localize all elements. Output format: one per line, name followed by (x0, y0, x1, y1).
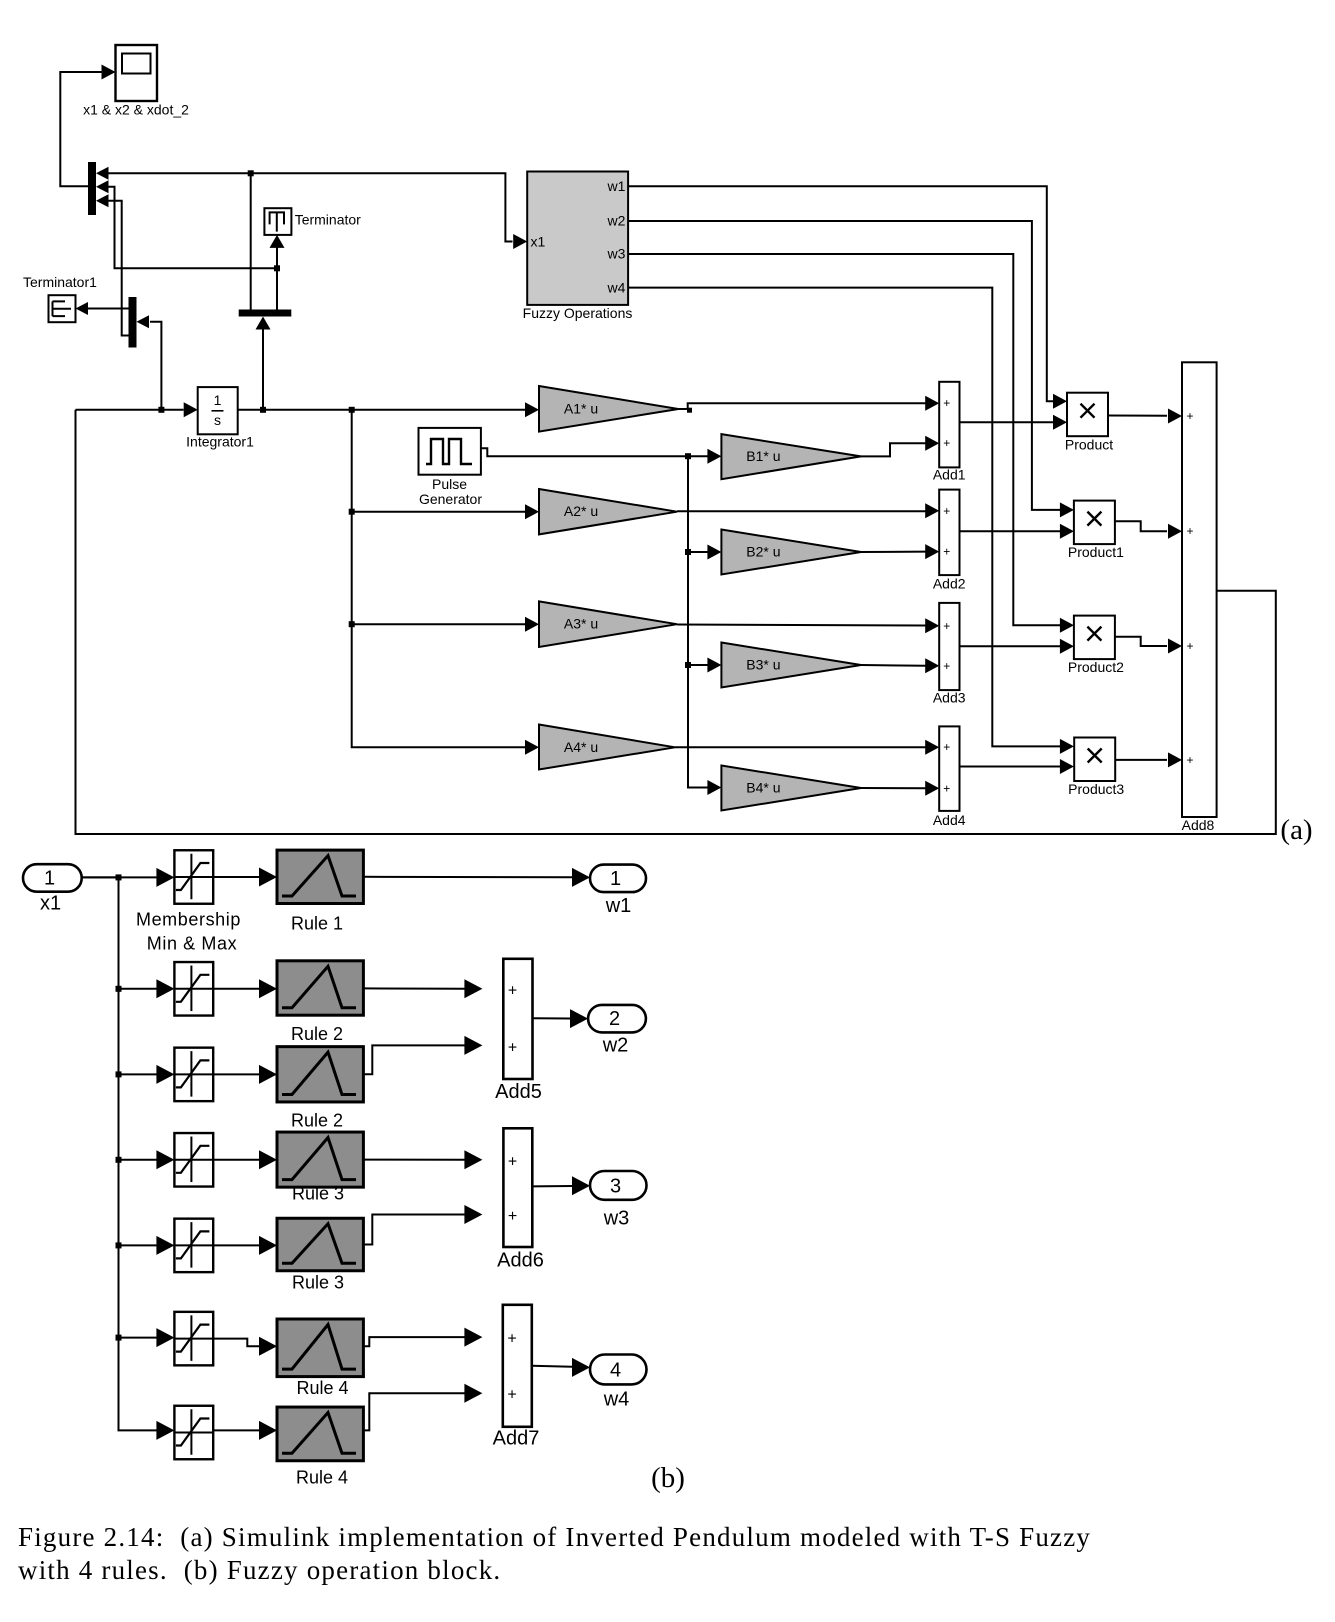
sum block Add3 (933, 603, 966, 705)
wire Integrator1 output up to Demux input (260, 327, 266, 413)
wire Add1 output to Product input 2 (960, 415, 1068, 430)
wire demux out2 to mux input 2 (109, 187, 275, 268)
wire gain A2 output to Add2 input 1 (677, 503, 939, 518)
svg-text:Add6: Add6 (497, 1250, 544, 1272)
label Rule 2 (second) (291, 1111, 343, 1131)
wire Product3 output to Add8 input 4 (1115, 752, 1182, 767)
svg-text:Add2: Add2 (933, 576, 966, 592)
wire B-trunk vertical (688, 456, 721, 795)
svg-text:with 4 rules. (b) Fuzzy opera: with 4 rules. (b) Fuzzy operation block. (18, 1555, 501, 1585)
label Rule 3 (first) (292, 1184, 344, 1204)
svg-text:w4: w4 (606, 279, 625, 295)
wire Pulse Generator output to gain B1 (481, 448, 722, 464)
gain A1 (539, 386, 678, 432)
product block Product (1065, 393, 1113, 453)
svg-text:Fuzzy Operations: Fuzzy Operations (523, 305, 633, 321)
svg-text:Rule 2: Rule 2 (291, 1111, 343, 1131)
svg-text:w4: w4 (603, 1389, 630, 1411)
wire w2 to Product1 input 1 (628, 221, 1074, 517)
svg-text:Add4: Add4 (933, 812, 966, 828)
label Rule 4 (second) (296, 1468, 348, 1488)
svg-text:+: + (1186, 639, 1193, 653)
wire trunk to Membership6 (row6) (116, 1328, 175, 1347)
wire Add3 output to Product2 input 2 (960, 639, 1074, 654)
svg-text:w3: w3 (606, 246, 625, 262)
wire Add4 output to Product3 input 2 (960, 759, 1074, 774)
svg-text:Terminator1: Terminator1 (23, 274, 97, 290)
wire gain B3 output to Add3 input 2 (861, 658, 939, 673)
output port 2 (w2) (588, 1005, 646, 1057)
wire gain B2 output to Add2 input 2 (861, 544, 939, 559)
sum block Add4 (933, 726, 966, 828)
label Rule 4 (first) (296, 1378, 348, 1398)
terminator Terminator (264, 208, 361, 235)
wire trunk to Membership2 (row2) (116, 979, 175, 998)
svg-text:+: + (507, 1387, 516, 1404)
membership-function block Rule 4 (instance 6) (277, 1319, 363, 1377)
saturation block Membership6 (174, 1312, 213, 1366)
svg-text:+: + (508, 982, 517, 999)
wire Membership5 to Rule 3 second (213, 1236, 277, 1255)
membership-function block Rule 3 (instance 5) (277, 1218, 363, 1271)
svg-text:Terminator: Terminator (295, 212, 361, 228)
svg-text:+: + (1186, 753, 1193, 767)
svg-text:+: + (943, 659, 950, 673)
gain B1 (721, 434, 861, 479)
sum block Add5 (495, 959, 542, 1103)
label Membership Min & Max (136, 910, 241, 954)
output port 4 (w4) (590, 1355, 647, 1411)
svg-text:Rule 4: Rule 4 (296, 1468, 348, 1488)
wire w3 to Product2 input 1 (628, 254, 1074, 633)
svg-text:Rule 4: Rule 4 (296, 1378, 348, 1398)
svg-text:A4* u: A4* u (564, 739, 598, 755)
sum block Add8 (1182, 362, 1217, 833)
svg-text:Add3: Add3 (933, 689, 966, 705)
svg-text:Generator: Generator (419, 491, 482, 507)
wire trunk to Membership5 (row5) (116, 1236, 175, 1255)
svg-text:B1* u: B1* u (746, 448, 780, 464)
svg-text:A3* u: A3* u (564, 616, 598, 632)
sum block Add2 (933, 490, 966, 592)
wire Product output to Add8 input 1 (1108, 409, 1182, 424)
svg-text:+: + (943, 740, 950, 754)
wire gain B1 output to Add1 input 2 (861, 436, 939, 457)
svg-text:+: + (943, 396, 950, 410)
svg-text:A2* u: A2* u (564, 503, 598, 519)
product block Product2 (1068, 616, 1124, 676)
wire feedback into Integrator1 input (76, 402, 198, 417)
svg-text:+: + (507, 1331, 516, 1348)
svg-text:Add7: Add7 (493, 1428, 540, 1450)
sum block Add6 (497, 1128, 544, 1271)
svg-text:Product2: Product2 (1068, 659, 1124, 675)
wire Membership7 to Rule 4 second (213, 1421, 277, 1440)
svg-text:+: + (508, 1153, 517, 1170)
label (b) (651, 1462, 685, 1494)
svg-text:(b): (b) (651, 1462, 685, 1494)
svg-text:w2: w2 (606, 213, 625, 229)
saturation block Membership7 (174, 1406, 213, 1460)
svg-text:+: + (1186, 524, 1193, 538)
wire Membership4 to Rule 3 (213, 1150, 277, 1169)
product block Product1 (1068, 501, 1124, 561)
wire Product2 output to Add8 input 3 (1115, 637, 1182, 654)
gain A3 (539, 601, 677, 647)
gain A2 (539, 489, 677, 534)
svg-text:+: + (943, 619, 950, 633)
svg-text:B2* u: B2* u (746, 544, 780, 560)
svg-text:Product3: Product3 (1068, 781, 1124, 797)
wire feedback branch to Demux1 input (150, 322, 164, 413)
wire Membership3 to Rule 2 second (213, 1065, 277, 1084)
wire A-trunk to gain A2 (349, 504, 539, 519)
svg-text:Product1: Product1 (1068, 544, 1124, 560)
wire gain A3 output to Add3 input 1 (677, 618, 939, 633)
wire w1 to Product input 1 (628, 186, 1067, 408)
wire Rule 3 second to Add6 input 2 (363, 1205, 482, 1245)
svg-text:x1 & x2 & xdot_2: x1 & x2 & xdot_2 (83, 102, 189, 118)
wire Add8 output feedback loop (76, 410, 1276, 834)
svg-text:+: + (943, 781, 950, 795)
svg-text:w2: w2 (602, 1035, 629, 1057)
svg-text:B4* u: B4* u (746, 780, 780, 796)
wire Rule 1 to output port w1 (363, 868, 590, 887)
svg-text:1: 1 (214, 392, 222, 408)
caption Figure 2.14 (18, 1522, 1091, 1585)
saturation block Membership3 (174, 1048, 213, 1102)
wire demux1 out2 to mux input 3 (109, 201, 129, 336)
label (a) (1280, 814, 1312, 846)
svg-text:+: + (508, 1039, 517, 1056)
wire gain A1 output to Add1 input 1 (678, 396, 939, 413)
wire Add5 output to port w2 (533, 1009, 589, 1028)
svg-text:+: + (1186, 409, 1193, 423)
svg-text:Rule 3: Rule 3 (292, 1184, 344, 1204)
wire gain A4 output to Add4 input 1 (675, 740, 939, 755)
wire Membership6 to Rule 4 (213, 1337, 277, 1356)
wire Demux out1 up to x1 line (250, 173, 252, 309)
svg-text:w3: w3 (603, 1208, 630, 1230)
gain B3 (721, 643, 861, 688)
wire Rule 4 second to Add7 input 2 (363, 1384, 482, 1431)
wire Integrator1 output to gain A1 (238, 402, 539, 417)
svg-text:Figure 2.14: (a) Simulink imp: Figure 2.14: (a) Simulink implementation… (18, 1522, 1091, 1552)
svg-text:4: 4 (610, 1360, 621, 1382)
svg-text:Integrator1: Integrator1 (186, 434, 254, 450)
wire mux output to scope (60, 65, 115, 187)
terminator Terminator1 (23, 274, 97, 322)
membership-function block Rule 2 (instance 2) (277, 961, 363, 1015)
wire Rule 2 to Add5 input 1 (363, 979, 482, 998)
svg-text:Rule 3: Rule 3 (292, 1273, 344, 1293)
wire Rule 3 to Add6 input 1 (363, 1150, 482, 1169)
wire trunk to Membership4 (row4) (116, 1150, 175, 1169)
membership-function block Rule 3 (instance 4) (277, 1132, 363, 1187)
svg-text:B3* u: B3* u (746, 657, 780, 673)
svg-text:Add1: Add1 (933, 466, 966, 482)
svg-text:+: + (943, 504, 950, 518)
saturation block Membership4 (174, 1133, 213, 1187)
sum block Add7 (493, 1305, 540, 1450)
membership-function block Rule 4 (instance 7) (277, 1407, 363, 1461)
svg-text:1: 1 (44, 868, 55, 890)
input port 1 (x1) (23, 864, 82, 914)
wire Add7 output to port w4 (532, 1358, 590, 1377)
svg-text:Add5: Add5 (495, 1081, 542, 1103)
mux Mux (flipped, 3 inputs) (88, 162, 109, 215)
membership-function block Rule 2 (instance 3) (277, 1047, 363, 1102)
wire Membership to Rule 1 (213, 868, 277, 887)
wire trunk to Membership3 (row3) (116, 1065, 175, 1084)
wire B-trunk to gain B2 (685, 545, 721, 560)
svg-text:Membership: Membership (136, 910, 241, 930)
membership-function block Rule 1 (instance 1) (277, 850, 363, 903)
wire x1 trunk vertical (82, 874, 175, 1440)
saturation block Membership (174, 850, 213, 904)
product block Product3 (1068, 738, 1124, 798)
label Rule 2 (first) (291, 1024, 343, 1044)
demux Demux1 (flipped, lower-left) (129, 297, 150, 348)
wire B-trunk to gain B3 (685, 658, 721, 673)
svg-text:+: + (508, 1208, 517, 1225)
wire demux1 out1 to Terminator1 (76, 302, 129, 315)
svg-text:w1: w1 (606, 178, 625, 194)
svg-text:Product: Product (1065, 437, 1113, 453)
integrator Integrator1 (186, 387, 254, 449)
saturation block Membership2 (174, 962, 213, 1016)
wire trunk to Membership (row1) (82, 868, 175, 887)
output port 1 (w1) (590, 865, 646, 917)
svg-text:+: + (943, 545, 950, 559)
demux Demux (rotated, above Integrator1) (239, 310, 292, 330)
label Rule 1 (291, 914, 343, 934)
pulse generator Pulse Generator (419, 428, 483, 507)
wire A-trunk vertical (352, 410, 539, 755)
wire x1 signal to mux input 1 and Fuzzy Operations x1 (109, 170, 528, 249)
wire A-trunk to gain A3 (349, 617, 539, 632)
svg-text:Pulse: Pulse (432, 476, 467, 492)
svg-text:+: + (943, 436, 950, 450)
svg-text:(a): (a) (1280, 814, 1312, 846)
wire gain B4 output to Add4 input 2 (861, 781, 939, 796)
svg-text:x1: x1 (40, 893, 61, 915)
output port 3 (w3) (590, 1171, 647, 1230)
svg-text:1: 1 (610, 868, 621, 890)
wire demux out to Terminator (270, 235, 285, 310)
svg-text:2: 2 (609, 1008, 620, 1030)
label Rule 3 (second) (292, 1273, 344, 1293)
sum block Add1 (933, 382, 966, 483)
wire Rule 4 to Add7 input 1 (363, 1328, 482, 1347)
svg-text:Rule 2: Rule 2 (291, 1024, 343, 1044)
svg-text:x1: x1 (531, 234, 546, 250)
svg-text:A1* u: A1* u (564, 401, 598, 417)
wire Add6 output to port w3 (532, 1176, 590, 1195)
svg-text:Rule 1: Rule 1 (291, 914, 343, 934)
svg-text:s: s (214, 412, 221, 428)
wire Add2 output to Product1 input 2 (960, 524, 1074, 539)
gain A4 (539, 725, 675, 770)
svg-text:Min & Max: Min & Max (147, 934, 237, 954)
wire Rule 2 second to Add5 input 2 (363, 1036, 482, 1074)
svg-text:w1: w1 (605, 895, 632, 917)
svg-text:Add8: Add8 (1182, 817, 1215, 833)
scope block x1 & x2 & xdot_2 (83, 45, 189, 118)
saturation block Membership5 (174, 1219, 213, 1273)
wire Membership2 to Rule 2 (213, 979, 277, 998)
gain B4 (721, 766, 861, 811)
wire Product1 output to Add8 input 2 (1115, 521, 1182, 539)
subsystem block Fuzzy Operations (523, 172, 633, 321)
gain B2 (721, 530, 861, 575)
svg-text:3: 3 (610, 1175, 621, 1197)
wire w4 to Product3 input 1 (628, 288, 1074, 754)
